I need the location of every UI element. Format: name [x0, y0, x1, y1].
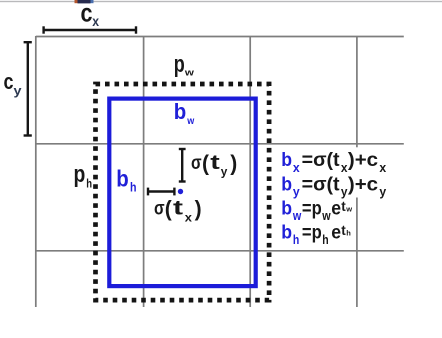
svg-text:h: h: [293, 233, 299, 247]
label sigma(t_y): [191, 151, 237, 179]
svg-text:e: e: [331, 198, 341, 219]
svg-text:c: c: [4, 69, 14, 94]
svg-text:x: x: [379, 161, 386, 175]
svg-text:h: h: [346, 229, 351, 238]
equation 3: b_w = p_w e^(t_w): [281, 198, 352, 223]
label p_h: [74, 161, 93, 191]
svg-text:b: b: [281, 198, 292, 219]
equation 2: b_y = sigma(t_y) + c_y: [281, 174, 386, 199]
svg-text:σ: σ: [154, 197, 165, 219]
svg-text:h: h: [130, 179, 137, 194]
sigma(t_x) bracket (horizontal with end ticks): [148, 188, 174, 196]
svg-text:=p: =p: [302, 198, 322, 219]
svg-text:)+c: )+c: [348, 150, 379, 171]
label c_x: [81, 0, 100, 29]
grid horizontal line 2: [36, 143, 404, 145]
svg-text:e: e: [331, 222, 341, 243]
label c_y: [4, 69, 22, 98]
svg-text:w: w: [184, 68, 195, 79]
svg-text:y: y: [293, 185, 300, 199]
c_x measurement bracket: [44, 26, 136, 33]
grid horizontal line 3: [36, 250, 404, 252]
sigma(t_y) bracket (vertical with end ticks): [179, 149, 186, 182]
top cropped hairline: [0, 1, 442, 2]
svg-text:w: w: [186, 116, 194, 127]
svg-text:y: y: [221, 165, 228, 179]
svg-text:c: c: [81, 0, 93, 28]
predicted box (blue rectangle): [109, 99, 255, 287]
svg-text:y: y: [379, 185, 386, 199]
white background behind equations (hides grid line): [351, 147, 363, 197]
c_y measurement bracket: [24, 42, 32, 135]
svg-text:y: y: [14, 84, 22, 98]
svg-text:x: x: [185, 211, 193, 224]
svg-text:=σ(t: =σ(t: [302, 150, 341, 171]
svg-text:x: x: [341, 161, 348, 175]
svg-text:b: b: [281, 222, 292, 243]
svg-text:=σ(t: =σ(t: [302, 174, 341, 195]
svg-text:p: p: [174, 51, 185, 78]
svg-text:h: h: [86, 179, 92, 191]
svg-text:): ): [230, 151, 237, 176]
svg-text:=p: =p: [302, 222, 322, 243]
box center dot (blue): [178, 189, 183, 194]
svg-text:σ: σ: [191, 152, 202, 174]
label b_h (blue): [116, 166, 136, 195]
svg-text:b: b: [281, 174, 292, 195]
grid vertical line 2: [143, 36, 145, 307]
svg-text:x: x: [92, 14, 99, 29]
svg-text:b: b: [174, 99, 187, 124]
svg-text:p: p: [74, 161, 86, 188]
equation 1: b_x = sigma(t_x) + c_x: [281, 150, 386, 175]
svg-text:(: (: [165, 196, 172, 221]
svg-text:h: h: [322, 233, 328, 247]
svg-text:t: t: [173, 196, 183, 219]
svg-text:)+c: )+c: [348, 174, 379, 195]
svg-text:t: t: [210, 151, 220, 174]
grid vertical line 1: [35, 36, 37, 307]
label sigma(t_x): [154, 196, 202, 224]
svg-text:y: y: [341, 185, 348, 199]
svg-text:w: w: [321, 209, 330, 223]
label p_w: [174, 51, 195, 79]
svg-text:b: b: [281, 150, 292, 171]
label b_w (blue): [174, 99, 195, 127]
equation 4: b_h = p_h e^(t_h): [281, 222, 351, 247]
svg-text:w: w: [292, 209, 301, 223]
grid horizontal line 1: [36, 36, 404, 38]
svg-text:x: x: [293, 161, 300, 175]
top cropped title remnant: [75, 0, 94, 3]
grid vertical line 3: [249, 36, 251, 307]
svg-text:w: w: [345, 205, 352, 214]
svg-text:b: b: [116, 166, 129, 192]
grid vertical line 4: [356, 36, 358, 307]
prior box (dotted black rectangle): [96, 84, 270, 300]
svg-text:(: (: [202, 151, 209, 176]
svg-text:): ): [195, 196, 202, 221]
